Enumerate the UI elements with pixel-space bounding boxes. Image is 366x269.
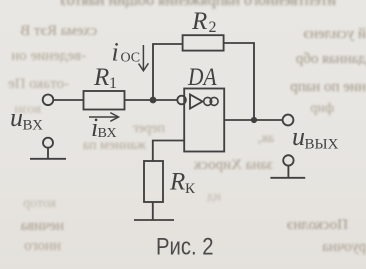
resistor R1 bbox=[84, 91, 125, 110]
input terminal bbox=[43, 95, 54, 106]
ground RK bbox=[134, 219, 174, 221]
svg-text:ОС: ОС bbox=[121, 51, 141, 66]
svg-text:ВХ: ВХ bbox=[23, 118, 44, 134]
svg-text:Рис. 2: Рис. 2 bbox=[156, 234, 214, 261]
op-amp U1 body bbox=[184, 89, 224, 152]
svg-text:1: 1 bbox=[109, 75, 117, 92]
svg-text:R: R bbox=[191, 8, 207, 35]
svg-text:ВХ: ВХ bbox=[98, 126, 117, 141]
node A (inverting input junction) bbox=[150, 97, 157, 104]
output terminal bbox=[283, 115, 294, 126]
svg-text:К: К bbox=[185, 181, 196, 197]
bleed-through background text (mirrored, blurred) bbox=[80, 0, 336, 10]
current arrow iBX bbox=[89, 113, 119, 122]
infinity symbol in op-amp bbox=[204, 97, 218, 105]
resistor RK bbox=[144, 161, 163, 202]
wire input to R1 bbox=[53, 99, 83, 101]
node B (output junction) bbox=[251, 117, 257, 123]
wire RK to ground bbox=[152, 202, 154, 220]
wire R1 to op-amp input bbox=[125, 99, 178, 101]
output-side ground terminal bbox=[270, 155, 305, 178]
svg-text:R: R bbox=[169, 169, 185, 196]
current arrow iOC bbox=[139, 45, 149, 71]
svg-text:2: 2 bbox=[209, 19, 217, 36]
svg-text:DA: DA bbox=[187, 64, 217, 91]
wire feedback vertical bbox=[153, 44, 183, 100]
wire non-inverting input bbox=[153, 141, 185, 162]
svg-text:ВЫХ: ВЫХ bbox=[305, 137, 339, 153]
svg-text:i: i bbox=[112, 38, 119, 67]
svg-text:R: R bbox=[93, 64, 109, 91]
input-side ground terminal bbox=[30, 138, 66, 159]
inversion bubble bbox=[177, 96, 186, 105]
triangle inside op-amp bbox=[190, 95, 203, 109]
wire R2 to output node bbox=[224, 43, 254, 120]
svg-text:u: u bbox=[10, 103, 23, 132]
wire op-amp output bbox=[224, 119, 282, 121]
resistor R2 bbox=[183, 35, 224, 50]
svg-text:u: u bbox=[292, 122, 305, 151]
